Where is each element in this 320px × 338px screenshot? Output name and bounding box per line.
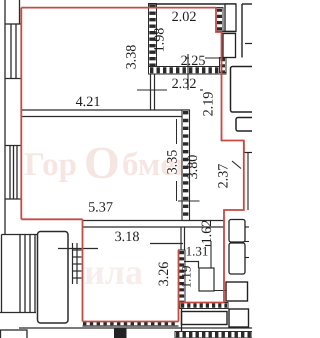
neighbour box below bathroom bbox=[182, 312, 228, 325]
balcony interior box bbox=[38, 232, 69, 324]
dim line 1.31 right part bbox=[205, 245, 211, 247]
window bay1 mullion bbox=[15, 24, 17, 79]
fixture box2 bbox=[229, 243, 245, 274]
wall 4.21 bottom line bbox=[21, 116, 189, 118]
neighbour small box bbox=[236, 118, 255, 132]
window bay2 bottom sill bbox=[5, 198, 21, 200]
dim line 3.35 upper bbox=[176, 119, 178, 144]
ventilation shaft box bbox=[225, 4, 236, 32]
left exterior wall bbox=[4, 0, 6, 235]
tick corridor bbox=[178, 200, 200, 202]
svg-text:3.35: 3.35 bbox=[165, 150, 181, 175]
floor plan drawing bbox=[0, 0, 252, 338]
window bay2 top sill bbox=[5, 145, 21, 147]
neighbour room box bbox=[231, 67, 255, 113]
shower box bbox=[226, 282, 248, 301]
red top edge bbox=[21, 7, 216, 9]
window rungs bbox=[73, 249, 82, 251]
tick on right edge bbox=[245, 43, 252, 45]
red boundary bbox=[21, 8, 244, 322]
kitchen balcony window rails bbox=[58, 243, 98, 284]
red kitchen left bbox=[82, 219, 84, 321]
svg-text:2.25: 2.25 bbox=[181, 53, 206, 69]
red kitchen bottom bbox=[83, 321, 179, 323]
bathroom door line bbox=[184, 261, 199, 263]
window bay1 mullion bbox=[10, 24, 12, 79]
dimension texts bbox=[76, 9, 232, 288]
window bay3 mullion bbox=[29, 235, 31, 313]
svg-text:3.26: 3.26 bbox=[156, 262, 172, 287]
window bay3 bottom sill bbox=[0, 312, 36, 314]
red bathroom bottom bbox=[179, 302, 225, 304]
dimension tick kitchen window bbox=[58, 248, 98, 250]
fixture box1 bbox=[229, 220, 245, 243]
svg-text:2.32: 2.32 bbox=[172, 76, 197, 92]
red left edge bbox=[20, 8, 22, 220]
tick bottom 1.62 bbox=[211, 290, 240, 292]
red hall top bbox=[21, 218, 82, 220]
door post wall bbox=[180, 227, 182, 257]
window bay3 mullion bbox=[34, 235, 36, 313]
hatched wall left of top-right room bbox=[149, 4, 157, 75]
bottom-left corner box bbox=[1, 330, 28, 338]
corridor upper-left wall lines bbox=[150, 74, 152, 110]
bathroom left hatched wall bbox=[179, 250, 186, 308]
window bay2 mullion bbox=[13, 146, 15, 200]
building bottom line bbox=[19, 327, 252, 329]
wall line below bathroom bbox=[181, 309, 183, 332]
building edge lower-left bbox=[1, 235, 3, 313]
svg-text:4.21: 4.21 bbox=[76, 94, 101, 110]
neighbour wall line right bbox=[241, 4, 243, 58]
bottom hatched wall band bbox=[175, 332, 252, 338]
svg-text:1.98: 1.98 bbox=[152, 28, 168, 53]
kitchen bottom wall line bbox=[83, 325, 179, 327]
dim line 2.32 bbox=[137, 89, 167, 91]
watermark row1 bbox=[24, 137, 194, 292]
hatched wall right strip top bbox=[216, 8, 223, 32]
hall wall top line bbox=[83, 220, 225, 222]
svg-text:1.62: 1.62 bbox=[199, 220, 215, 245]
wall edge top-left bbox=[19, 0, 21, 24]
svg-text:1.19: 1.19 bbox=[179, 266, 194, 289]
svg-text:ила: ила bbox=[84, 252, 143, 292]
svg-text:5.37: 5.37 bbox=[88, 200, 113, 216]
red bathroom-kitchen wall bbox=[178, 250, 180, 322]
window bay3 mullion bbox=[19, 235, 21, 313]
window bay3 mullion bbox=[24, 235, 26, 313]
wall 4.21 top line bbox=[21, 109, 189, 111]
bathroom top line bbox=[150, 243, 183, 245]
svg-text:2.02: 2.02 bbox=[172, 9, 197, 25]
window bay2 mullion bbox=[16, 146, 18, 200]
bottom dark block bbox=[114, 329, 127, 338]
dim line 2.25 bbox=[186, 57, 189, 59]
kitchen bottom hatched band bbox=[83, 322, 178, 326]
dim line 1.62 vertical bbox=[210, 241, 212, 290]
wall stub right bbox=[243, 142, 245, 153]
svg-text:3.38: 3.38 bbox=[124, 45, 140, 70]
window bay1 bottom sill bbox=[5, 78, 21, 80]
dim line 2.37 bbox=[247, 153, 249, 211]
red right top bbox=[216, 8, 244, 303]
hatched wall bottom of top-right room bbox=[149, 67, 227, 75]
tick bbox=[244, 152, 252, 154]
balcony top wall bbox=[2, 234, 38, 236]
hall wall bottom line bbox=[83, 226, 225, 228]
box below shaft bbox=[223, 34, 236, 58]
dim line 3.35 lower bbox=[176, 181, 178, 201]
svg-text:3.18: 3.18 bbox=[115, 229, 140, 245]
door swing diagonal bbox=[232, 161, 241, 169]
svg-text:1.31: 1.31 bbox=[186, 244, 209, 259]
extension line x188 bbox=[187, 54, 189, 90]
stub lines bbox=[245, 226, 249, 228]
top wall line bbox=[149, 3, 237, 5]
hatched wall right strip mid bbox=[220, 58, 227, 73]
svg-text:3.80: 3.80 bbox=[185, 155, 201, 180]
window bay1 top sill bbox=[5, 23, 21, 25]
bathroom bottom hatched wall bbox=[180, 303, 228, 309]
toilet box bbox=[199, 268, 214, 291]
top wall right segment bbox=[242, 3, 252, 5]
neighbour box bottom right bbox=[229, 309, 249, 327]
shaft bottom line bbox=[216, 31, 236, 33]
svg-text:О: О bbox=[84, 137, 120, 188]
svg-text:2.37: 2.37 bbox=[216, 164, 232, 189]
svg-text:2.19: 2.19 bbox=[201, 92, 217, 117]
vertical wall big-room right bbox=[182, 110, 190, 221]
window bay2 mullion bbox=[9, 146, 11, 200]
svg-text:Гор: Гор bbox=[24, 147, 77, 183]
